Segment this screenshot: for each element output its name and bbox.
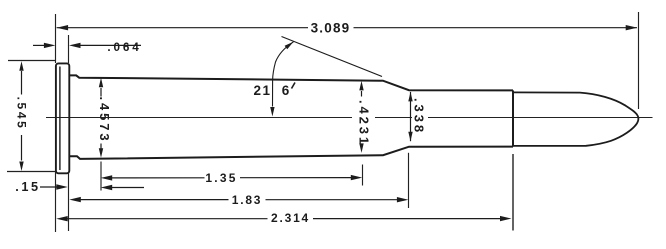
ext bullet tip x=638.3 [638, 12, 640, 109]
dimension 1.83 [80, 199, 398, 201]
dimension 3.089 [57, 27, 637, 29]
ext 1.83 right [408, 153, 410, 208]
svg-text:.064: .064 [107, 41, 141, 54]
dimension 2.314 [67, 218, 501, 220]
dimension .4231 [361, 91, 363, 97]
dimension .15 [40, 186, 144, 189]
shoulder angle 21 6' [282, 37, 383, 77]
svg-text:6: 6 [282, 83, 290, 98]
svg-text:.545: .545 [15, 97, 29, 131]
svg-text:.15: .15 [15, 180, 40, 194]
svg-text:1.83: 1.83 [232, 193, 263, 207]
svg-text:.338: .338 [412, 98, 427, 135]
ext rim front x=68.6 [68, 35, 70, 63]
centerline [46, 117, 653, 119]
dimension .064 [33, 44, 141, 46]
svg-text:2.314: 2.314 [271, 211, 310, 225]
ext .545 bottom [7, 171, 56, 173]
dimension .4573 [100, 88, 102, 149]
case rim outline [56, 63, 639, 173]
svg-text:.4231: .4231 [357, 100, 372, 147]
ext head face x=55.7 [55, 14, 57, 63]
ext 1.35 right [362, 165, 364, 186]
svg-text:21: 21 [253, 83, 271, 98]
bullet [513, 92, 638, 145]
ext 2.314 right (case mouth) [512, 154, 514, 231]
case body top profile [69, 75, 513, 90]
dimension 1.35 [111, 177, 352, 179]
case body bottom profile [69, 147, 513, 159]
svg-text:1.35: 1.35 [205, 171, 237, 185]
case mouth [512, 90, 514, 146]
svg-text:3.089: 3.089 [311, 20, 351, 35]
rim inner edge line [59, 67, 61, 171]
dimension .545 [21, 71, 23, 161]
ext .4573 below case [100, 162, 102, 191]
dimension .338 [410, 92, 412, 141]
ext .545 top [8, 60, 55, 62]
svg-text:.4573: .4573 [97, 96, 112, 143]
